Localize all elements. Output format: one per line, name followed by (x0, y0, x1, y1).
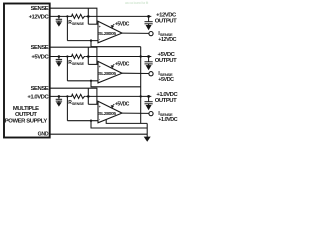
wire ground branch ch3 (91, 121, 147, 128)
svg-text:+12VDC: +12VDC (29, 14, 50, 20)
wire GND from supply (51, 133, 148, 135)
capacitor output C2 (145, 16, 153, 25)
svg-text:POWER SUPPLY: POWER SUPPLY (5, 119, 48, 125)
label +5VDC OUTPUT (155, 52, 177, 64)
wire amp upper input ch2 (88, 63, 98, 65)
svg-text:-: - (99, 77, 100, 81)
svg-text:+12VDC: +12VDC (158, 37, 176, 43)
svg-text:+5VDC: +5VDC (31, 55, 49, 61)
svg-text:ISL28005: ISL28005 (97, 31, 116, 37)
node VIN- tap ch3 (66, 95, 68, 97)
svg-text:GND: GND (38, 132, 49, 138)
node rail end junction ch2 (147, 55, 150, 58)
node junction on rail ch2 (87, 55, 90, 58)
ground arrow C6 (146, 105, 152, 110)
svg-text:-: - (99, 37, 100, 41)
ground arrow C4 (146, 65, 152, 70)
wire sense tap vertical ch1 (87, 8, 89, 24)
node ground branch ch2 (90, 80, 92, 82)
capacitor output C6 (145, 96, 153, 105)
wire rail +1.0VDC right segment (86, 95, 152, 97)
svg-text:+: + (99, 65, 101, 69)
ground symbol main (144, 137, 151, 142)
capacitor bypass C5 (56, 96, 62, 102)
resistor RSENSE ch3 (71, 94, 86, 98)
label +12VDC OUTPUT (155, 13, 177, 25)
wire SENSE ch2 (51, 47, 97, 64)
svg-text:RSENSE: RSENSE (68, 100, 84, 106)
svg-text:+1.0VDC: +1.0VDC (27, 94, 49, 100)
svg-text:OUTPUT: OUTPUT (155, 58, 177, 64)
ground arrow C5 (56, 102, 62, 106)
op-amp U2 ISL28005 (98, 61, 122, 83)
node rail end junction ch1 (147, 15, 150, 18)
svg-text:SENSE: SENSE (31, 86, 49, 92)
wire rail +5VDC left segment (51, 56, 72, 58)
svg-text:OUTPUT: OUTPUT (155, 98, 177, 104)
node bus crossing rail3 (140, 95, 142, 97)
wire ground bus vertical (140, 47, 142, 124)
wire VIN- vertical ch1 (66, 16, 68, 40)
capacitor bypass C3 (56, 57, 62, 63)
wire amp lower input ch1 (67, 40, 98, 42)
svg-text:MULTIPLE: MULTIPLE (13, 106, 39, 112)
svg-text:OUTPUT: OUTPUT (15, 112, 37, 118)
node ground branch ch1 (90, 39, 92, 41)
wire rail +12VDC right segment (86, 15, 152, 17)
node rail end junction ch3 (147, 95, 150, 98)
wire amp output ch2 (122, 72, 149, 74)
svg-text:RSENSE: RSENSE (68, 60, 84, 66)
power pin arrow U2 (112, 64, 115, 67)
resistor RSENSE ch1 (71, 14, 86, 18)
op-amp U1 ISL28005 (98, 21, 122, 43)
node VIN- tap ch1 (66, 15, 68, 17)
node junction on rail ch3 (87, 95, 90, 98)
wire SENSE ch1 (51, 8, 97, 24)
wire ground branch ch2 (91, 81, 141, 87)
svg-text:+1.0VDC: +1.0VDC (158, 117, 177, 123)
node VIN- tap ch2 (66, 55, 68, 57)
terminal ISENSE ch3 (149, 112, 153, 116)
ground arrow C3 (56, 62, 62, 66)
power pin arrow U1 (112, 24, 115, 27)
wire rail +1.0VDC left segment (51, 95, 72, 97)
wire VIN- vertical ch3 (66, 96, 68, 120)
wire VIN- vertical ch2 (66, 57, 68, 81)
svg-text:+: + (99, 105, 101, 109)
wire ground branch ch1 (91, 41, 141, 47)
svg-text:ISL28005: ISL28005 (97, 71, 116, 77)
wire SENSE ch3 (51, 88, 97, 104)
svg-text:-: - (99, 117, 100, 121)
node bypass cap junction ch3 (58, 95, 61, 98)
wire amp lower input ch2 (67, 80, 98, 82)
svg-text:ISL28005: ISL28005 (97, 111, 116, 117)
terminal ISENSE ch1 (149, 31, 153, 35)
power pin arrow U3 (112, 104, 115, 107)
wire amp upper input ch1 (88, 23, 98, 25)
terminal ISENSE ch2 (149, 72, 153, 76)
wire amp output ch3 (122, 112, 149, 114)
node bypass cap junction ch1 (58, 15, 61, 18)
node bypass cap junction ch2 (58, 55, 61, 58)
wire sense tap vertical ch3 (87, 88, 89, 104)
capacitor output C4 (145, 57, 153, 66)
node junction on rail ch1 (87, 15, 90, 18)
svg-text:SENSE: SENSE (31, 45, 49, 51)
svg-text:+: + (99, 25, 101, 29)
wire rail +5VDC right segment (86, 56, 152, 58)
svg-text:+5VDC: +5VDC (158, 77, 174, 83)
wire ground collector vertical (146, 123, 148, 137)
capacitor bypass C1 (56, 16, 62, 22)
wire amp upper input ch3 (88, 103, 98, 105)
block title MULTIPLE OUTPUT POWER SUPPLY (5, 106, 48, 125)
label +1.0VDC OUTPUT (155, 92, 179, 104)
svg-text:+5VDC: +5VDC (115, 62, 130, 68)
svg-text:SENSE: SENSE (31, 6, 49, 12)
svg-text:+5VDC: +5VDC (115, 102, 130, 108)
ground arrow C2 (146, 25, 152, 30)
svg-text:OUTPUT: OUTPUT (155, 18, 177, 24)
wire rail +12VDC left segment (51, 15, 72, 17)
power supply block PS1 (4, 4, 50, 138)
wire amp lower input ch3 (67, 120, 98, 122)
svg-text:RSENSE: RSENSE (68, 20, 84, 26)
wire amp output ch1 (122, 32, 149, 34)
node bus crossing rail2 (140, 55, 142, 57)
svg-text:+5VDC: +5VDC (115, 22, 130, 28)
op-amp U3 ISL28005 (98, 101, 122, 123)
wire sense tap vertical ch2 (87, 47, 89, 64)
wire U3 ground pin (106, 119, 147, 123)
node ground branch ch3 (90, 120, 92, 122)
svg-text:aa ca loand ta fit: aa ca loand ta fit (125, 1, 148, 5)
resistor RSENSE ch2 (71, 54, 86, 58)
ground arrow C1 (56, 22, 62, 26)
